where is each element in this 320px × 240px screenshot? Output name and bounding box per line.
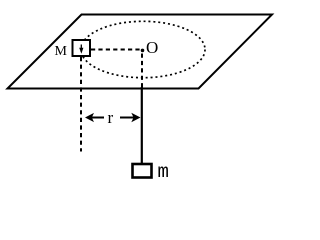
radius arrow left half [85,113,104,122]
svg-text:M: M [55,44,68,59]
string below table to mass m (solid) [141,87,143,164]
table top (parallelogram plane) [8,15,273,89]
svg-text:m: m [158,161,169,183]
circular path of block M (dotted ellipse) [81,21,205,77]
radius arrow right half [120,113,141,122]
string segment M to O (dashed) [91,49,140,51]
hanging mass m (square) [133,164,152,178]
hole at center O (dot) [141,49,145,53]
svg-text:r: r [108,108,114,127]
peg/arrow mark inside block M [79,45,83,54]
block M (square on table) [73,40,91,56]
svg-text:O: O [146,38,158,57]
projection line below M (dashed) [80,57,82,152]
hidden string below O down to table front edge (dashed) [141,54,143,89]
